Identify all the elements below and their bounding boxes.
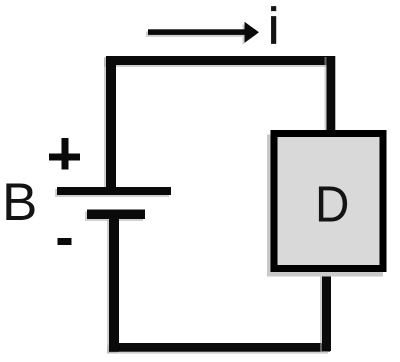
wire left upper [106,56,116,189]
wire bottom [109,343,330,352]
wire top [106,56,335,65]
svg-text:D: D [315,176,349,233]
wire right upper [327,56,336,132]
current arrow [148,22,259,43]
svg-text:i: i [268,0,279,55]
svg-text:B: B [2,173,37,232]
battery B plate + [57,187,171,195]
wire right lower [322,271,331,351]
minus sign [58,238,72,245]
D box shadow [267,135,383,277]
battery B plate - [87,210,145,220]
device box D [274,134,383,269]
plus sign [49,138,80,170]
wire left lower [109,219,119,352]
